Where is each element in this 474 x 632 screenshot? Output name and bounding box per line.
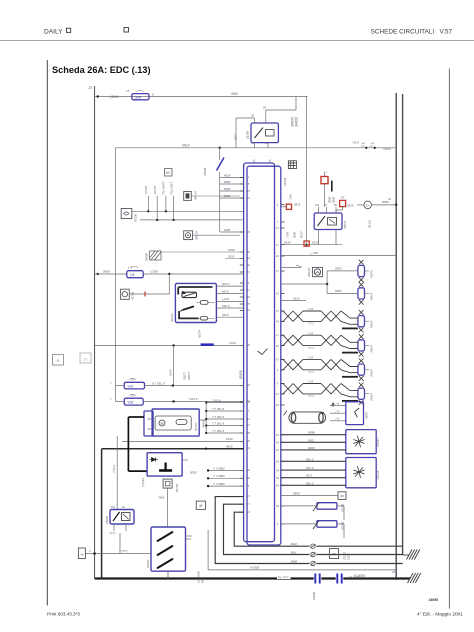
svg-text:K5L-0: K5L-0 [222, 304, 230, 308]
svg-text:V01: V01 [128, 385, 134, 389]
svg-text:Y.Y 0000: Y.Y 0000 [213, 466, 225, 470]
svg-text:78075: 78075 [370, 292, 374, 300]
svg-text:1*4: 1*4 [128, 266, 132, 270]
svg-text:54707: 54707 [194, 422, 198, 431]
svg-text:Y.Y 0000: Y.Y 0000 [213, 474, 225, 478]
svg-text:)3000: )3000 [109, 95, 119, 99]
svg-text:*/866: */866 [158, 496, 165, 500]
svg-text:7.25: 7.25 [308, 307, 314, 311]
svg-text:Z680: Z680 [290, 559, 298, 563]
svg-text:0000: 0000 [384, 147, 392, 151]
svg-text:67176: 67176 [144, 186, 148, 194]
svg-text:9610: 9610 [226, 444, 233, 448]
svg-text:7.7.2: 7.7.2 [308, 346, 314, 350]
svg-text:M: M [57, 359, 60, 363]
svg-text:7.25: 7.25 [308, 380, 314, 384]
svg-text:78247: 78247 [370, 369, 374, 377]
svg-text:25: 25 [88, 86, 93, 90]
svg-text:M55: M55 [308, 438, 314, 442]
svg-text:0608: 0608 [103, 270, 110, 274]
svg-text:85157: 85157 [376, 438, 380, 447]
svg-text:1C: 1C [83, 358, 88, 362]
svg-text:67176: 67176 [153, 186, 157, 194]
svg-text:8/03: 8/03 [234, 134, 238, 140]
svg-text:23000: 23000 [312, 592, 316, 601]
svg-text:45130: 45130 [131, 292, 135, 300]
svg-text:4/8: 4/8 [148, 418, 152, 421]
svg-text:5515: 5515 [293, 296, 300, 300]
svg-text:Z6077: Z6077 [187, 371, 191, 381]
svg-text:98LL: 98LL [291, 550, 298, 554]
svg-text:34908: 34908 [145, 253, 149, 261]
svg-text:Y.Y 0000: Y.Y 0000 [213, 482, 225, 486]
svg-text:9515: 9515 [294, 203, 301, 207]
svg-text:7.25: 7.25 [308, 331, 314, 335]
svg-text:¿ L88: ¿ L88 [310, 251, 318, 255]
svg-text:C6L0: C6L0 [229, 341, 236, 345]
svg-text:8140: 8140 [226, 437, 233, 441]
svg-text:DAILY: DAILY [44, 29, 63, 36]
svg-text:7.7 051.8: 7.7 051.8 [212, 429, 224, 433]
svg-text:0000: 0000 [224, 180, 231, 184]
svg-text:15868: 15868 [203, 167, 207, 176]
svg-text:42274: 42274 [198, 329, 202, 338]
svg-text:0000: 0000 [293, 232, 297, 238]
svg-text:80.87: 80.87 [300, 231, 304, 238]
svg-text:00: 00 [332, 553, 336, 557]
svg-text:V: V [81, 552, 84, 557]
svg-text:78247: 78247 [370, 320, 374, 328]
svg-text:7140: 7140 [286, 232, 290, 238]
svg-text:349.18: 349.18 [194, 191, 198, 200]
svg-text:45152: 45152 [170, 313, 174, 322]
svg-text:0000: 0000 [308, 446, 315, 450]
svg-text:* 051.6: * 051.6 [212, 398, 222, 402]
svg-text:* 7777,: * 7777, [119, 549, 128, 553]
svg-text:8150: 8150 [284, 241, 291, 245]
svg-text:7P-0000: 7P-0000 [349, 575, 360, 579]
svg-text:/909: /909 [230, 92, 238, 96]
svg-text:8155: 8155 [169, 369, 173, 376]
svg-text:MC: MC [166, 171, 172, 175]
svg-text:0000: 0000 [190, 470, 197, 474]
svg-text:44955: 44955 [429, 598, 439, 602]
svg-text:85151: 85151 [368, 219, 372, 228]
svg-text:25336: 25336 [283, 177, 287, 187]
svg-text:7:58 a: 7:58 a [112, 465, 116, 473]
svg-text:→**): →**) [334, 402, 340, 406]
svg-text:C000: C000 [228, 248, 235, 252]
svg-text:V02: V02 [128, 401, 134, 405]
svg-text:4802: 4802 [365, 412, 369, 419]
svg-text:7777: 7777 [109, 532, 116, 536]
svg-text:#515: #515 [222, 289, 229, 293]
svg-text:6622: 6622 [291, 542, 298, 546]
svg-text:52522: 52522 [146, 559, 150, 568]
svg-text:7.7 051.8: 7.7 051.8 [212, 421, 224, 425]
svg-text:77a 70077: 77a 70077 [162, 181, 166, 195]
svg-text:RC: RC [341, 197, 345, 200]
svg-text:95L-0: 95L-0 [306, 457, 314, 461]
svg-text:7.25: 7.25 [308, 356, 314, 360]
svg-text:76077: 76077 [183, 372, 187, 380]
svg-text:4770B: 4770B [340, 504, 344, 512]
svg-text:7.7.2: 7.7.2 [308, 370, 314, 374]
svg-text:#195: #195 [224, 228, 231, 232]
svg-text:0000: 0000 [328, 197, 332, 203]
svg-text:85150: 85150 [134, 214, 138, 222]
svg-text:SCHEDE CIRCUITALI V.57: SCHEDE CIRCUITALI V.57 [371, 29, 453, 36]
svg-text:* 051.6: * 051.6 [188, 397, 198, 401]
svg-text:3/4008: 3/4008 [295, 117, 299, 127]
svg-text:0000: 0000 [335, 289, 342, 293]
svg-text:9515: 9515 [347, 203, 354, 207]
svg-text:Z00Z: Z00Z [347, 553, 351, 561]
svg-text:15: 15 [126, 89, 130, 93]
svg-text:30A: 30A [135, 96, 142, 100]
svg-text:78247: 78247 [370, 393, 374, 401]
svg-text:0R86: 0R86 [308, 431, 315, 435]
svg-text:25058: 25058 [105, 516, 109, 525]
svg-text:#515: #515 [222, 313, 229, 317]
svg-text:4770B: 4770B [340, 522, 344, 530]
svg-text:1/6: 1/6 [130, 273, 135, 277]
svg-text:4° Edi. - Maggio 2001: 4° Edi. - Maggio 2001 [417, 612, 464, 618]
svg-text:9.7 05L.8: 9.7 05L.8 [152, 381, 165, 385]
svg-text:77a (70Z7: 77a (70Z7 [170, 181, 174, 195]
svg-text:9 0000: 9 0000 [250, 566, 260, 570]
svg-text:78247: 78247 [370, 344, 374, 352]
svg-text:M: M [161, 422, 164, 426]
svg-text:8515B: 8515B [175, 484, 179, 492]
svg-text:/5L5: /5L5 [305, 474, 312, 478]
svg-text:7N 7777: 7N 7777 [278, 575, 289, 579]
svg-text:≠1: ≠1 [392, 570, 396, 574]
svg-text:≠2: ≠2 [388, 197, 392, 201]
svg-text:-1538: -1538 [150, 270, 158, 274]
svg-text:59L-0: 59L-0 [306, 481, 314, 485]
svg-text:Print 603.43.3*3: Print 603.43.3*3 [47, 612, 80, 617]
svg-text:#318: #318 [224, 174, 231, 178]
svg-text:7.7.2: 7.7.2 [308, 322, 314, 326]
svg-text:8150: 8150 [312, 241, 319, 245]
svg-text:001.0: 001.0 [222, 282, 230, 286]
svg-text:34858: 34858 [201, 419, 205, 428]
svg-text:7.7 051.6: 7.7 051.6 [212, 407, 224, 411]
svg-text:78075: 78075 [370, 270, 374, 278]
svg-text:1/5A: 1/5A [187, 534, 193, 538]
svg-text:25637: 25637 [343, 220, 347, 230]
svg-text:87a: 87a [111, 506, 116, 509]
svg-text:5515: 5515 [228, 254, 235, 258]
svg-text:0680: 0680 [293, 491, 300, 495]
svg-text:M: M [199, 504, 202, 508]
svg-text:Scheda 26A: EDC (.13): Scheda 26A: EDC (.13) [52, 65, 151, 75]
svg-text:→**): →**) [334, 409, 340, 413]
svg-text:-51.8: -51.8 [352, 141, 359, 145]
svg-text:7.7 051.6: 7.7 051.6 [212, 415, 224, 419]
svg-text:87a: 87a [315, 204, 320, 207]
svg-text:→**): →**) [334, 417, 340, 421]
svg-text:85150: 85150 [239, 370, 243, 379]
svg-text:5,5(4(1: 5,5(4(1 [141, 477, 145, 487]
svg-text:0000: 0000 [224, 187, 231, 191]
svg-text:8/8: 8/8 [148, 428, 152, 431]
svg-text:4/80,20: 4/80,20 [307, 267, 311, 277]
svg-text:25206: 25206 [246, 130, 250, 140]
svg-text:00: 00 [340, 494, 344, 498]
svg-text:0000: 0000 [332, 197, 336, 203]
svg-text:87L18: 87L18 [376, 470, 380, 479]
svg-text:7140: 7140 [289, 194, 293, 200]
svg-text:7.7.2: 7.7.2 [308, 394, 314, 398]
svg-text:¿CL0: ¿CL0 [222, 297, 229, 301]
svg-text:05L8: 05L8 [182, 144, 190, 148]
svg-text:07L-0: 07L-0 [306, 466, 314, 470]
svg-text:0000: 0000 [335, 267, 342, 271]
